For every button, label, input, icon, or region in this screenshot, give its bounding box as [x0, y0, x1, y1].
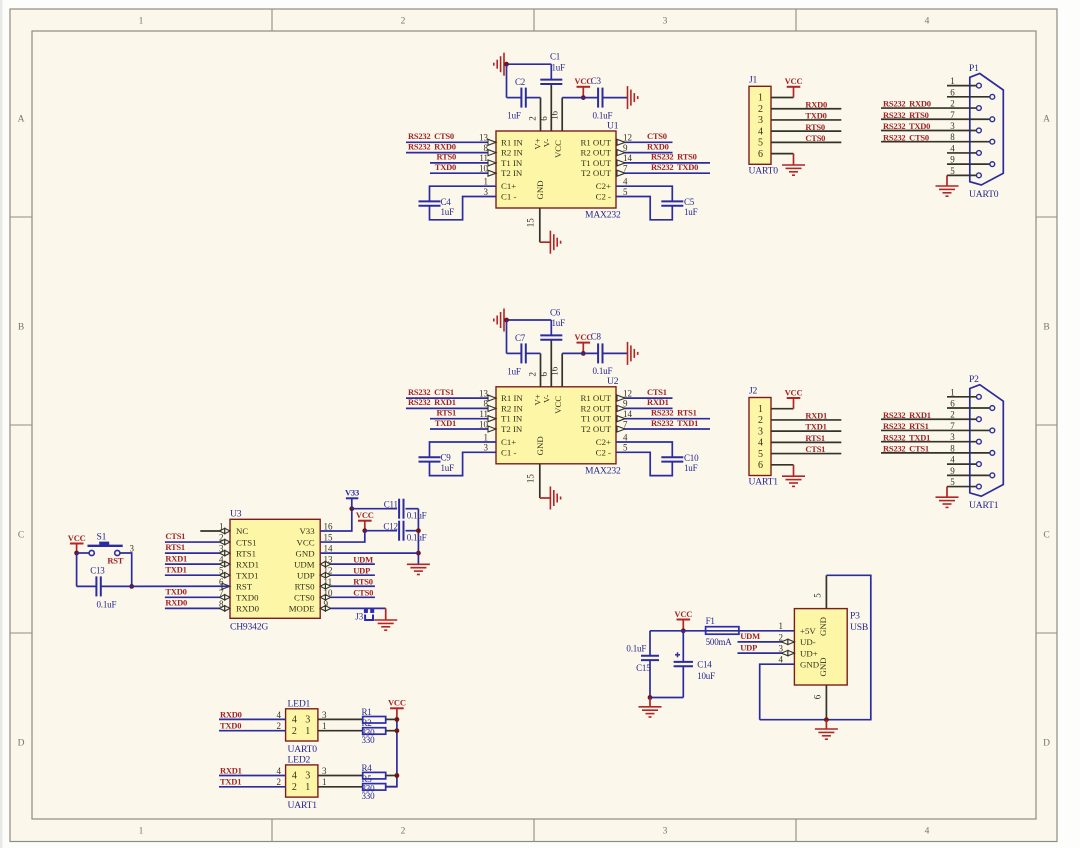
svg-text:2: 2: [950, 99, 955, 109]
svg-text:C1: C1: [550, 52, 560, 62]
svg-text:3: 3: [322, 710, 327, 720]
svg-text:RTS1: RTS1: [165, 542, 185, 552]
svg-text:LED2: LED2: [288, 754, 311, 765]
svg-text:UDM: UDM: [294, 559, 315, 569]
svg-text:15: 15: [526, 474, 536, 484]
svg-text:1: 1: [779, 621, 784, 631]
svg-text:RTS1: RTS1: [805, 433, 825, 443]
svg-text:6: 6: [950, 399, 955, 409]
svg-text:8: 8: [219, 599, 224, 609]
svg-text:C9: C9: [441, 453, 452, 463]
svg-text:1uF: 1uF: [684, 463, 698, 473]
svg-text:T2 OUT: T2 OUT: [581, 168, 612, 178]
svg-text:12: 12: [324, 566, 333, 576]
svg-text:TXD0: TXD0: [165, 586, 186, 596]
svg-text:1: 1: [950, 76, 955, 86]
svg-text:CTS0: CTS0: [647, 131, 667, 141]
svg-text:R2 OUT: R2 OUT: [580, 403, 611, 413]
svg-text:RS232 CTS0: RS232 CTS0: [883, 132, 929, 142]
svg-text:12: 12: [623, 388, 632, 398]
svg-text:C: C: [18, 531, 24, 541]
svg-text:C2: C2: [515, 77, 525, 87]
svg-text:GND: GND: [818, 617, 828, 636]
svg-text:C7: C7: [515, 333, 526, 343]
svg-text:C6: C6: [550, 307, 561, 317]
svg-text:14: 14: [623, 153, 633, 163]
svg-text:RXD1: RXD1: [220, 765, 242, 775]
svg-text:R2 OUT: R2 OUT: [580, 148, 611, 158]
svg-text:RST: RST: [236, 581, 253, 591]
svg-text:MAX232: MAX232: [585, 465, 621, 476]
svg-text:16: 16: [324, 522, 334, 532]
svg-text:0.1uF: 0.1uF: [407, 532, 427, 542]
svg-text:9: 9: [623, 399, 628, 409]
svg-text:RST: RST: [107, 556, 123, 566]
svg-text:4: 4: [925, 17, 930, 27]
svg-text:1: 1: [758, 93, 763, 104]
svg-text:2: 2: [292, 782, 297, 793]
svg-text:VCC: VCC: [297, 537, 315, 547]
svg-text:B: B: [18, 323, 24, 333]
svg-text:P2: P2: [969, 374, 979, 385]
svg-text:A: A: [1043, 115, 1050, 125]
svg-text:P3: P3: [850, 610, 860, 621]
svg-text:UART0: UART0: [969, 189, 999, 200]
svg-text:RXD1: RXD1: [165, 553, 187, 563]
svg-text:0.1uF: 0.1uF: [593, 110, 613, 120]
svg-text:12: 12: [623, 133, 632, 143]
svg-text:RTS0: RTS0: [437, 152, 457, 162]
svg-text:4: 4: [292, 715, 297, 726]
svg-text:3: 3: [758, 426, 763, 437]
svg-text:3: 3: [484, 187, 489, 197]
svg-text:1uF: 1uF: [441, 207, 455, 217]
svg-text:5: 5: [758, 138, 763, 149]
svg-text:D: D: [1043, 739, 1050, 749]
svg-text:1uF: 1uF: [507, 111, 521, 121]
svg-text:UART1: UART1: [288, 800, 318, 811]
svg-text:TXD0: TXD0: [435, 162, 456, 172]
svg-text:R2 IN: R2 IN: [501, 403, 523, 413]
svg-text:1: 1: [322, 721, 327, 731]
svg-text:1uF: 1uF: [552, 318, 566, 328]
svg-text:C1+: C1+: [501, 437, 516, 447]
svg-text:1: 1: [758, 404, 763, 415]
svg-text:500mA: 500mA: [706, 637, 733, 647]
svg-text:UDP: UDP: [297, 570, 315, 580]
svg-text:1uF: 1uF: [684, 207, 698, 217]
svg-text:T1 OUT: T1 OUT: [581, 414, 612, 424]
svg-text:TXD1: TXD1: [220, 777, 241, 787]
svg-text:1uF: 1uF: [441, 463, 455, 473]
svg-text:5: 5: [813, 593, 823, 598]
svg-text:UART1: UART1: [749, 477, 779, 488]
svg-text:11: 11: [479, 409, 488, 419]
svg-text:2: 2: [401, 17, 406, 27]
svg-text:CH9342G: CH9342G: [230, 622, 268, 633]
svg-text:C1 -: C1 -: [501, 192, 516, 202]
svg-text:V-: V-: [542, 394, 552, 403]
svg-text:6: 6: [539, 372, 549, 377]
svg-text:5: 5: [219, 566, 224, 576]
svg-text:UART1: UART1: [969, 500, 999, 511]
svg-text:UDM: UDM: [353, 555, 373, 565]
svg-text:7: 7: [219, 588, 224, 598]
svg-text:RS232 TXD1: RS232 TXD1: [883, 432, 930, 442]
svg-text:T2 OUT: T2 OUT: [581, 424, 612, 434]
svg-text:1uF: 1uF: [507, 366, 521, 376]
svg-text:RTS0: RTS0: [805, 122, 825, 132]
svg-text:RS232 RXD0: RS232 RXD0: [408, 141, 456, 151]
svg-text:U3: U3: [230, 508, 242, 519]
svg-text:3: 3: [950, 432, 955, 442]
svg-text:RS232 TXD0: RS232 TXD0: [883, 121, 930, 131]
svg-text:RTS1: RTS1: [236, 548, 256, 558]
svg-text:R1 OUT: R1 OUT: [580, 393, 611, 403]
svg-text:9: 9: [324, 599, 329, 609]
svg-text:3: 3: [322, 766, 327, 776]
svg-text:UART0: UART0: [288, 744, 318, 755]
svg-text:UDM: UDM: [740, 631, 760, 641]
svg-text:TXD0: TXD0: [236, 593, 259, 603]
svg-text:6: 6: [219, 577, 224, 587]
svg-text:2: 2: [401, 827, 406, 837]
svg-text:2: 2: [292, 726, 297, 737]
svg-text:4: 4: [219, 555, 224, 565]
svg-text:R2 IN: R2 IN: [501, 148, 523, 158]
svg-text:5: 5: [950, 477, 955, 487]
svg-text:RXD0: RXD0: [165, 597, 187, 607]
svg-text:TXD1: TXD1: [236, 570, 258, 580]
svg-text:3: 3: [305, 771, 310, 782]
svg-text:RTS0: RTS0: [353, 577, 373, 587]
svg-text:C4: C4: [441, 197, 452, 207]
svg-text:C1+: C1+: [501, 181, 516, 191]
svg-text:CTS1: CTS1: [236, 537, 257, 547]
svg-text:2: 2: [277, 721, 282, 731]
svg-text:J2: J2: [749, 386, 758, 397]
svg-text:U1: U1: [607, 120, 619, 131]
svg-text:1: 1: [322, 777, 327, 787]
svg-text:UD-: UD-: [800, 637, 816, 647]
svg-text:C3: C3: [591, 76, 602, 86]
svg-text:TXD0: TXD0: [805, 111, 826, 121]
svg-text:CTS1: CTS1: [647, 387, 667, 397]
svg-text:13: 13: [324, 555, 334, 565]
svg-text:2: 2: [779, 632, 784, 642]
svg-text:7: 7: [950, 421, 955, 431]
svg-text:D: D: [18, 739, 25, 749]
svg-text:RS232 RTS1: RS232 RTS1: [651, 408, 697, 418]
svg-text:C2+: C2+: [596, 437, 611, 447]
svg-text:V33: V33: [345, 487, 359, 497]
svg-text:9: 9: [623, 143, 628, 153]
svg-text:1: 1: [484, 432, 489, 442]
svg-text:6: 6: [813, 694, 823, 699]
svg-text:1: 1: [305, 782, 310, 793]
svg-text:10uF: 10uF: [697, 671, 715, 681]
svg-text:V33: V33: [299, 526, 315, 536]
svg-text:4: 4: [950, 455, 955, 465]
svg-text:MODE: MODE: [289, 604, 315, 614]
svg-text:0.1uF: 0.1uF: [626, 643, 646, 653]
svg-text:RS232 RXD0: RS232 RXD0: [883, 99, 931, 109]
svg-text:+5V: +5V: [800, 626, 816, 636]
svg-text:R1 IN: R1 IN: [501, 137, 523, 147]
svg-text:1: 1: [139, 17, 144, 27]
svg-text:3: 3: [663, 17, 668, 27]
svg-text:T1 IN: T1 IN: [501, 414, 523, 424]
svg-text:7: 7: [623, 419, 628, 429]
svg-text:RS232 TXD0: RS232 TXD0: [651, 162, 698, 172]
svg-text:3: 3: [758, 115, 763, 126]
svg-text:1: 1: [219, 522, 224, 532]
svg-text:2: 2: [277, 777, 282, 787]
svg-text:RS232 CTS1: RS232 CTS1: [408, 387, 454, 397]
svg-text:VCC: VCC: [785, 387, 803, 397]
svg-text:VCC: VCC: [553, 396, 563, 414]
svg-text:GND: GND: [535, 436, 545, 455]
svg-text:GND: GND: [535, 180, 545, 199]
svg-text:C2 -: C2 -: [596, 192, 611, 202]
svg-text:RXD1: RXD1: [647, 397, 669, 407]
svg-text:2: 2: [528, 372, 538, 377]
svg-text:TXD0: TXD0: [220, 721, 241, 731]
svg-text:10: 10: [479, 164, 489, 174]
svg-text:UDP: UDP: [740, 642, 757, 652]
svg-text:0.1uF: 0.1uF: [593, 366, 613, 376]
svg-text:RS232 RTS1: RS232 RTS1: [883, 421, 929, 431]
svg-text:V-: V-: [542, 139, 552, 148]
svg-text:3: 3: [950, 121, 955, 131]
svg-text:J1: J1: [749, 75, 758, 86]
svg-text:C11: C11: [384, 500, 398, 510]
svg-text:16: 16: [550, 111, 560, 121]
svg-text:7: 7: [950, 110, 955, 120]
svg-text:5: 5: [623, 443, 628, 453]
svg-text:C2 -: C2 -: [596, 447, 611, 457]
svg-text:3: 3: [305, 715, 310, 726]
svg-text:0.1uF: 0.1uF: [97, 600, 117, 610]
svg-text:2: 2: [758, 104, 763, 115]
svg-text:C15: C15: [636, 663, 651, 673]
svg-text:T1 IN: T1 IN: [501, 158, 523, 168]
svg-text:6: 6: [758, 149, 763, 160]
svg-text:10: 10: [479, 419, 489, 429]
svg-text:RS232 RXD1: RS232 RXD1: [408, 397, 456, 407]
svg-text:4: 4: [925, 827, 930, 837]
svg-text:1: 1: [139, 827, 144, 837]
svg-text:0.1uF: 0.1uF: [407, 510, 427, 520]
svg-text:T2 IN: T2 IN: [501, 168, 523, 178]
svg-text:4: 4: [277, 766, 282, 776]
svg-text:RTS1: RTS1: [437, 408, 457, 418]
svg-text:RXD0: RXD0: [647, 141, 669, 151]
svg-text:C8: C8: [591, 332, 602, 342]
svg-text:USB: USB: [850, 622, 868, 633]
svg-text:RS232 CTS1: RS232 CTS1: [883, 444, 929, 454]
svg-text:RS232 RXD1: RS232 RXD1: [883, 410, 931, 420]
svg-text:14: 14: [324, 544, 334, 554]
svg-text:330: 330: [362, 791, 376, 801]
svg-text:6: 6: [758, 460, 763, 471]
svg-text:TXD1: TXD1: [165, 564, 186, 574]
svg-text:4: 4: [758, 438, 763, 449]
svg-text:13: 13: [479, 133, 489, 143]
svg-text:RXD1: RXD1: [236, 559, 259, 569]
svg-text:A: A: [18, 115, 25, 125]
svg-text:RXD0: RXD0: [805, 99, 827, 109]
svg-text:T2 IN: T2 IN: [501, 424, 523, 434]
svg-text:5: 5: [950, 166, 955, 176]
svg-text:CTS1: CTS1: [805, 444, 825, 454]
svg-text:RXD0: RXD0: [220, 709, 242, 719]
svg-text:9: 9: [950, 155, 955, 165]
svg-text:VCC: VCC: [785, 76, 803, 86]
svg-text:P1: P1: [969, 63, 979, 74]
svg-text:7: 7: [623, 164, 628, 174]
svg-text:11: 11: [479, 153, 488, 163]
svg-text:C14: C14: [697, 659, 712, 669]
svg-text:15: 15: [526, 218, 536, 228]
svg-text:RS232 CTS0: RS232 CTS0: [408, 131, 454, 141]
svg-text:GND: GND: [800, 659, 819, 669]
svg-text:UDP: UDP: [353, 566, 370, 576]
svg-text:2: 2: [528, 116, 538, 121]
svg-text:4: 4: [758, 126, 763, 137]
svg-text:RXD1: RXD1: [805, 411, 827, 421]
svg-text:3: 3: [219, 544, 224, 554]
svg-text:4: 4: [779, 655, 784, 665]
svg-text:4: 4: [623, 432, 628, 442]
svg-text:GND: GND: [296, 548, 315, 558]
svg-text:4: 4: [623, 177, 628, 187]
svg-text:C5: C5: [684, 197, 695, 207]
svg-text:C: C: [1043, 531, 1049, 541]
svg-text:1: 1: [950, 387, 955, 397]
svg-text:1: 1: [484, 177, 489, 187]
svg-text:RS232 RTS0: RS232 RTS0: [651, 152, 697, 162]
svg-text:RS232 RTS0: RS232 RTS0: [883, 110, 929, 120]
svg-text:VCC: VCC: [674, 609, 692, 619]
svg-text:TXD1: TXD1: [435, 418, 456, 428]
svg-text:3: 3: [663, 827, 668, 837]
svg-text:4: 4: [950, 143, 955, 153]
svg-text:UART0: UART0: [749, 166, 779, 177]
svg-text:CTS0: CTS0: [805, 133, 825, 143]
svg-text:VCC: VCC: [553, 140, 563, 158]
svg-text:16: 16: [550, 366, 560, 376]
svg-text:J3: J3: [355, 611, 363, 621]
svg-text:5: 5: [758, 449, 763, 460]
svg-text:LED1: LED1: [288, 698, 311, 709]
svg-text:VCC: VCC: [356, 510, 374, 520]
svg-text:8: 8: [950, 443, 955, 453]
svg-text:1: 1: [305, 726, 310, 737]
svg-text:NC: NC: [236, 526, 248, 536]
svg-text:RTS0: RTS0: [295, 581, 316, 591]
svg-text:B: B: [1043, 323, 1049, 333]
svg-text:VCC: VCC: [574, 76, 592, 86]
svg-text:14: 14: [623, 409, 633, 419]
svg-text:TXD1: TXD1: [805, 422, 826, 432]
svg-text:3: 3: [484, 443, 489, 453]
svg-text:RS232 TXD1: RS232 TXD1: [651, 418, 698, 428]
svg-text:CTS0: CTS0: [353, 588, 373, 598]
svg-text:C2+: C2+: [596, 181, 611, 191]
svg-text:330: 330: [362, 735, 376, 745]
svg-text:VCC: VCC: [388, 698, 406, 708]
svg-text:RXD0: RXD0: [236, 604, 260, 614]
svg-text:5: 5: [623, 187, 628, 197]
svg-text:UD+: UD+: [800, 648, 818, 658]
svg-text:C13: C13: [90, 566, 105, 576]
svg-text:T1 OUT: T1 OUT: [581, 158, 612, 168]
svg-text:2: 2: [950, 410, 955, 420]
svg-text:9: 9: [950, 466, 955, 476]
svg-text:2: 2: [219, 533, 224, 543]
svg-text:CTS0: CTS0: [294, 593, 315, 603]
svg-text:VCC: VCC: [574, 332, 592, 342]
svg-text:MAX232: MAX232: [585, 210, 621, 221]
svg-text:4: 4: [292, 771, 297, 782]
svg-text:13: 13: [479, 388, 489, 398]
svg-text:VCC: VCC: [68, 533, 86, 543]
svg-text:11: 11: [324, 577, 333, 587]
svg-text:C10: C10: [684, 453, 699, 463]
svg-text:6: 6: [950, 87, 955, 97]
svg-text:3: 3: [129, 543, 134, 553]
svg-text:C12: C12: [383, 522, 397, 532]
svg-text:CTS1: CTS1: [165, 531, 185, 541]
svg-text:15: 15: [324, 533, 334, 543]
svg-text:4: 4: [277, 710, 282, 720]
svg-text:2: 2: [758, 415, 763, 426]
svg-text:U2: U2: [607, 376, 619, 387]
svg-text:S1: S1: [97, 532, 107, 543]
svg-text:F1: F1: [706, 616, 715, 626]
svg-text:R1 IN: R1 IN: [501, 393, 523, 403]
svg-text:1uF: 1uF: [552, 62, 566, 72]
svg-text:C1 -: C1 -: [501, 447, 516, 457]
svg-text:6: 6: [539, 116, 549, 121]
svg-text:R1 OUT: R1 OUT: [580, 137, 611, 147]
svg-text:8: 8: [950, 132, 955, 142]
svg-text:GND: GND: [818, 657, 828, 676]
svg-text:10: 10: [324, 588, 334, 598]
